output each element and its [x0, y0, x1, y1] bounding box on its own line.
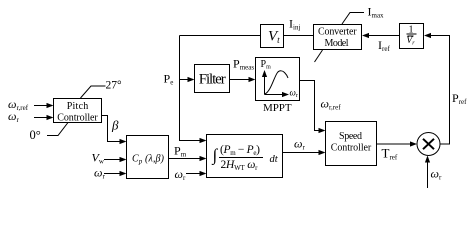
svg-text:Pm: Pm — [174, 143, 187, 158]
svg-text:Pitch: Pitch — [67, 101, 89, 112]
svg-text:Cp (λ,β): Cp (λ,β) — [132, 154, 165, 166]
svg-text:Iinj: Iinj — [289, 17, 300, 32]
svg-text:Pref: Pref — [452, 91, 467, 106]
svg-text:Controller: Controller — [331, 142, 372, 153]
svg-text:0°: 0° — [30, 128, 41, 142]
svg-text:27°: 27° — [106, 80, 123, 92]
svg-text:Pm: Pm — [261, 59, 272, 71]
svg-text:ωr,ref: ωr,ref — [321, 97, 342, 112]
svg-text:1: 1 — [409, 24, 414, 35]
svg-text:ωr: ωr — [294, 137, 305, 152]
svg-text:MPPT: MPPT — [263, 102, 292, 114]
svg-text:Imax: Imax — [368, 5, 385, 20]
svg-text:(Pm − Pe): (Pm − Pe) — [220, 144, 260, 157]
svg-text:Pe: Pe — [164, 72, 174, 87]
svg-text:ωr: ωr — [175, 167, 186, 182]
svg-text:Converter: Converter — [318, 27, 357, 38]
svg-text:Filter: Filter — [199, 71, 226, 87]
svg-text:Pmeas: Pmeas — [233, 57, 254, 72]
svg-text:Vw: Vw — [92, 151, 105, 166]
svg-text:Model: Model — [325, 38, 349, 49]
svg-text:β: β — [111, 118, 119, 133]
svg-text:∫: ∫ — [212, 146, 219, 166]
svg-text:Speed: Speed — [339, 131, 362, 142]
svg-text:Iref: Iref — [378, 38, 390, 53]
svg-text:2HWT ωr: 2HWT ωr — [221, 159, 259, 172]
svg-text:Controller: Controller — [57, 112, 98, 123]
svg-text:ωr: ωr — [431, 167, 442, 182]
svg-text:ωr: ωr — [94, 166, 105, 181]
svg-text:dt: dt — [270, 154, 279, 165]
svg-text:ωr: ωr — [290, 88, 298, 100]
svg-text:Vr: Vr — [406, 36, 415, 47]
svg-text:Vt: Vt — [268, 28, 280, 45]
svg-text:Tref: Tref — [382, 145, 398, 161]
